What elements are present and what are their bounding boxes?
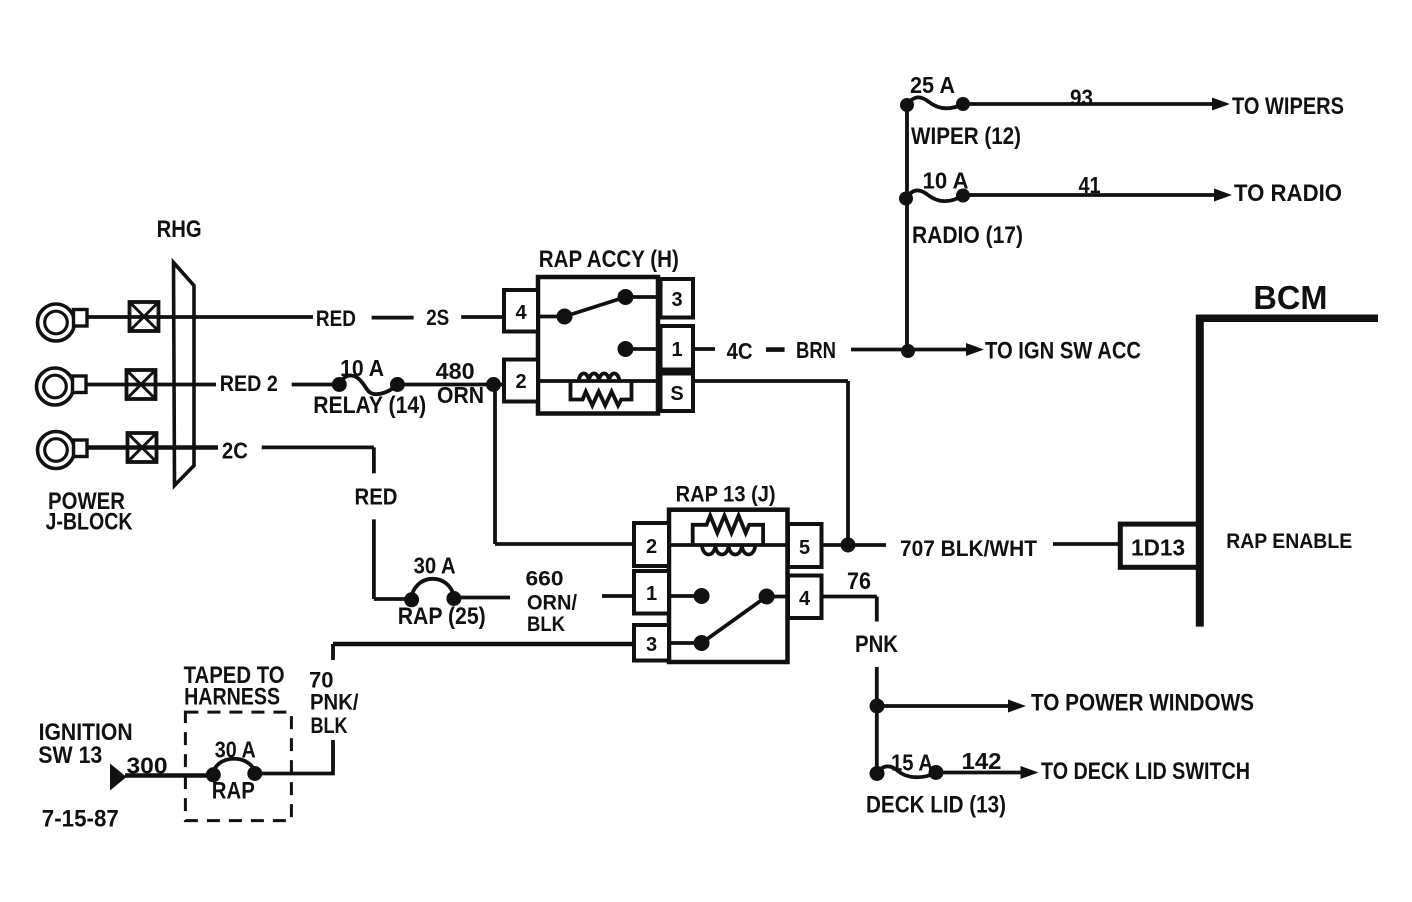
ring terminal 3 <box>38 432 88 469</box>
svg-text:30 A: 30 A <box>414 553 456 579</box>
pin box 5 <box>788 524 822 567</box>
svg-text:TO IGN SW ACC: TO IGN SW ACC <box>985 338 1141 365</box>
svg-text:TO WIPERS: TO WIPERS <box>1232 93 1344 120</box>
relay coil wire pin2 to pin5 <box>669 543 788 547</box>
svg-text:30 A: 30 A <box>215 737 256 763</box>
svg-text:TO RADIO: TO RADIO <box>1234 180 1342 207</box>
wire junction down to RAP 13 pin 2 <box>495 385 634 545</box>
svg-text:PNK/: PNK/ <box>310 690 359 715</box>
switch arm <box>565 289 662 317</box>
wire from pin S down to 707 node <box>846 381 850 545</box>
svg-text:RELAY (14): RELAY (14) <box>313 392 426 419</box>
pin box 2 <box>634 523 669 566</box>
pin box 3 <box>634 625 669 661</box>
connector 1D13 <box>1120 524 1198 567</box>
svg-text:HARNESS: HARNESS <box>184 684 280 711</box>
wire 142 to deck lid switch <box>936 748 1250 785</box>
wire RED 2S to pin 4 <box>159 305 505 331</box>
taped to harness dashed box <box>184 662 292 821</box>
svg-text:TO POWER WINDOWS: TO POWER WINDOWS <box>1031 690 1254 717</box>
svg-text:2C: 2C <box>222 438 248 464</box>
wire 660 ORN/BLK to RAP13 pin 1 <box>454 568 634 637</box>
pin 1 contact dot <box>618 341 662 357</box>
pin 1 contact dot <box>669 588 710 604</box>
wire fuse to 70 PNK/BLK <box>255 772 335 776</box>
pin box 4 <box>504 290 538 332</box>
ignition source arrow <box>110 764 127 791</box>
wire 300 <box>125 753 213 779</box>
wire ring3 to fusible link <box>87 445 128 450</box>
svg-text:10 A: 10 A <box>340 355 384 381</box>
svg-text:3: 3 <box>671 289 682 311</box>
fuse RELAY (14) 10 A <box>313 355 426 419</box>
wire 76 PNK from pin 4 <box>822 568 899 774</box>
svg-text:S: S <box>670 383 683 405</box>
fusible link 3 <box>128 433 157 462</box>
svg-text:RAP ACCY (H): RAP ACCY (H) <box>539 246 679 273</box>
relay coil bumps <box>702 545 755 555</box>
svg-text:ORN: ORN <box>437 382 484 408</box>
svg-text:RAP (25): RAP (25) <box>398 603 486 630</box>
svg-text:93: 93 <box>1070 85 1093 111</box>
svg-text:DECK LID (13): DECK LID (13) <box>866 792 1006 819</box>
svg-text:1D13: 1D13 <box>1131 535 1185 561</box>
svg-text:WIPER (12): WIPER (12) <box>911 123 1021 150</box>
junction dot at bus / BRN wire <box>901 344 915 358</box>
svg-text:4C: 4C <box>727 338 753 364</box>
svg-text:15 A: 15 A <box>891 750 933 776</box>
relay RAP 13 (J) body <box>669 510 788 662</box>
svg-text:707 BLK/WHT: 707 BLK/WHT <box>900 536 1038 561</box>
BCM outline left side <box>1196 315 1204 627</box>
fusible link 1 <box>130 302 159 331</box>
IGNITION SW 13 labels <box>38 719 132 833</box>
svg-text:25 A: 25 A <box>910 72 955 98</box>
pin box 3 <box>661 279 694 318</box>
wire 480 ORN <box>397 358 506 408</box>
svg-text:5: 5 <box>799 537 810 559</box>
fuse DECK LID (13) 15 A <box>866 750 1006 819</box>
svg-text:4: 4 <box>799 588 811 610</box>
relay coil wire pin2 to pin S <box>538 379 848 383</box>
wire 93 to wipers <box>963 85 1344 121</box>
resistor (parallel with coil) <box>693 516 763 546</box>
svg-text:RHG: RHG <box>157 216 202 243</box>
svg-text:RED: RED <box>316 306 356 331</box>
svg-text:4: 4 <box>515 302 527 324</box>
svg-text:J-BLOCK: J-BLOCK <box>46 509 134 536</box>
svg-text:PNK: PNK <box>855 631 899 658</box>
svg-text:BRN: BRN <box>796 337 836 363</box>
relay coil bumps <box>579 373 620 381</box>
fuse WIPER (12) 25 A <box>900 72 1021 150</box>
svg-text:76: 76 <box>847 568 871 595</box>
POWER J-BLOCK label <box>46 488 134 536</box>
node: power windows tap <box>870 690 1255 717</box>
resistor (parallel with coil) <box>571 381 632 406</box>
svg-text:41: 41 <box>1079 172 1101 198</box>
svg-text:10 A: 10 A <box>923 168 969 194</box>
pin box S <box>661 374 694 412</box>
pin box 4 <box>788 576 822 619</box>
svg-text:1: 1 <box>671 339 682 361</box>
relay RAP 13 (J) title <box>676 482 776 507</box>
fuse RAP 30 A (taped to harness) <box>206 737 262 805</box>
fuse RAP (25) 30 A <box>398 553 486 631</box>
svg-text:142: 142 <box>962 748 1002 774</box>
svg-text:RADIO (17): RADIO (17) <box>912 222 1023 249</box>
connector RHG <box>157 216 202 486</box>
svg-text:ORN/: ORN/ <box>527 592 577 615</box>
svg-text:TO DECK LID SWITCH: TO DECK LID SWITCH <box>1041 758 1250 785</box>
node: 480 ORN junction <box>486 377 501 392</box>
svg-text:BLK: BLK <box>527 613 565 636</box>
svg-text:2: 2 <box>646 536 657 558</box>
relay RAP ACCY (H) body <box>538 277 658 414</box>
internal wire pin4 to switch contact <box>538 309 573 325</box>
svg-text:RAP 13 (J): RAP 13 (J) <box>676 482 776 507</box>
BCM outline top <box>1196 314 1378 322</box>
svg-text:SW 13: SW 13 <box>38 742 102 769</box>
svg-text:2S: 2S <box>426 305 449 330</box>
svg-text:3: 3 <box>646 634 657 656</box>
svg-text:7-15-87: 7-15-87 <box>42 806 119 833</box>
pin box 2 <box>504 360 538 402</box>
RAP ENABLE label <box>1226 530 1352 553</box>
svg-text:BLK: BLK <box>311 713 348 738</box>
wire 4C BRN to ign sw acc <box>693 337 1141 365</box>
wire 707 BLK/WHT to 1D13 <box>822 536 1121 561</box>
pin box 1 <box>661 326 694 370</box>
relay RAP ACCY (H) title <box>539 246 679 273</box>
wire ring1 to fusible link <box>87 315 130 319</box>
svg-text:RED: RED <box>355 484 398 510</box>
fuse RADIO (17) 10 A <box>899 168 1023 250</box>
switch arm <box>702 589 788 644</box>
wire 41 to radio <box>963 172 1342 207</box>
svg-text:RAP ENABLE: RAP ENABLE <box>1226 530 1352 553</box>
wire RED vertical <box>355 484 412 600</box>
ring terminal 1 <box>38 304 88 341</box>
BCM label <box>1253 279 1327 316</box>
fusible link 2 <box>127 370 156 399</box>
ring terminal 2 <box>37 368 87 405</box>
svg-text:RED 2: RED 2 <box>220 371 278 396</box>
pin 3 contact dot <box>669 635 710 651</box>
svg-text:660: 660 <box>526 568 564 591</box>
svg-text:1: 1 <box>646 583 657 605</box>
wire 2C <box>157 438 374 474</box>
svg-text:480: 480 <box>436 358 475 384</box>
wire from RAP13 pin 3 to 70 PNK/BLK <box>309 644 634 775</box>
wire ring2 to fusible link <box>86 383 127 387</box>
svg-text:BCM: BCM <box>1253 279 1327 316</box>
svg-text:RAP: RAP <box>212 778 255 805</box>
svg-text:2: 2 <box>515 371 526 393</box>
wire: vertical accessory bus from fuses down to BRN wire <box>905 105 909 349</box>
pin box 1 <box>634 571 669 614</box>
wire RED 2 <box>156 371 340 396</box>
